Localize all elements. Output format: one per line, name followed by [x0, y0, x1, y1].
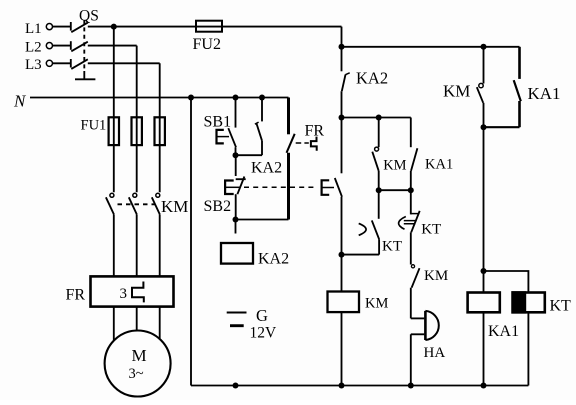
- switch QS pole 1: [71, 22, 88, 32]
- fuse FU1 a: [109, 117, 119, 145]
- svg-text:HA: HA: [424, 345, 446, 361]
- wire top bus to FU2 and right rail: [114, 26, 342, 28]
- thermal relay FR box: [66, 276, 174, 306]
- node L3 terminal: [25, 57, 53, 73]
- wire phase A down: [113, 27, 115, 193]
- svg-text:FR: FR: [305, 122, 325, 139]
- relay contact KA2 (NO, series in rail): [342, 68, 389, 117]
- svg-text:3~: 3~: [129, 366, 144, 382]
- node N / left rail junction: [188, 95, 194, 101]
- fuse FU1 b: [132, 117, 142, 145]
- svg-text:KM: KM: [443, 82, 470, 101]
- wire right rail top: [341, 27, 343, 72]
- node KA1 coil bus junction: [481, 383, 487, 389]
- svg-text:L3: L3: [25, 57, 42, 73]
- wire phase B down: [136, 46, 138, 193]
- motor M: [105, 331, 171, 397]
- node KA2 coil bus junction: [233, 383, 239, 389]
- node KA2 contact bottom junction: [339, 115, 345, 121]
- wire KT coil to bus: [527, 312, 529, 385]
- node top-right branch junction: [339, 44, 345, 50]
- contactor contact KM (NO, middle): [372, 118, 406, 191]
- wire rail to KM coil: [341, 255, 343, 292]
- wire KM/KA1 mid join: [379, 189, 411, 191]
- svg-text:KM: KM: [424, 268, 448, 284]
- svg-text:KM: KM: [365, 296, 388, 312]
- wire L2 row corner: [88, 45, 137, 47]
- wire phase C down: [159, 63, 161, 192]
- svg-text:SB2: SB2: [204, 198, 232, 215]
- svg-text:QS: QS: [79, 8, 99, 25]
- switch QS pole 3: [71, 59, 88, 69]
- svg-text:FU2: FU2: [193, 36, 221, 53]
- node SB1 top junction: [233, 95, 239, 101]
- svg-text:12V: 12V: [250, 324, 278, 341]
- wire KM coil to bus: [341, 312, 343, 385]
- wire SB2 bottom to FR rail: [236, 219, 289, 221]
- relay contact KA1 (NO, top right): [514, 47, 561, 127]
- node KM coil bus junction: [339, 383, 345, 389]
- wire phase B to FR: [136, 214, 138, 276]
- wire N bus: [30, 97, 289, 99]
- wire FR to motor c: [159, 307, 161, 339]
- pushbutton SB1 (NC): [204, 114, 237, 156]
- contactor contact KM (NO, top right): [443, 47, 484, 127]
- svg-text:FU1: FU1: [81, 117, 107, 133]
- wire left rail: [190, 98, 192, 386]
- wire KA1 coil to bus: [483, 312, 485, 385]
- svg-text:M: M: [132, 346, 147, 365]
- node L2 terminal: [25, 40, 53, 56]
- contactor KM main contact 2: [129, 193, 137, 214]
- svg-text:3: 3: [120, 286, 128, 302]
- svg-text:SB1: SB1: [204, 114, 232, 131]
- wire FR to motor a: [113, 307, 115, 340]
- wire KT bottom to rail: [342, 254, 380, 256]
- node KT rail junction: [339, 252, 345, 258]
- svg-text:KA2: KA2: [251, 159, 282, 176]
- SB2 linkage dashed to second pole: [244, 186, 316, 188]
- wire mid horizontal from KA2: [342, 117, 411, 119]
- contactor KM main contact 1: [106, 193, 114, 214]
- wire stub to KA2 coil: [235, 220, 237, 234]
- node HA bus junction: [408, 383, 414, 389]
- QS linkage dashed: [83, 20, 85, 71]
- wire KA1 to KT coil branch: [484, 271, 529, 293]
- svg-text:N: N: [13, 92, 27, 111]
- svg-text:KM: KM: [161, 197, 188, 216]
- node SB1 bottom junction: [233, 152, 239, 158]
- wire L3 to QS: [53, 62, 71, 64]
- svg-text:FR: FR: [66, 287, 86, 304]
- fuse FU2: [193, 21, 223, 53]
- wire SB1/KA2 bottom join: [236, 154, 263, 156]
- node KM top-right junction: [481, 44, 487, 50]
- timer contact KT (NO delayed close): [359, 190, 402, 254]
- thermal contact FR (NC): [287, 122, 325, 152]
- QS handle: [75, 71, 95, 79]
- node L1 terminal: [25, 21, 53, 37]
- wire rail mid section: [341, 118, 343, 174]
- contactor KM main contact 3: [152, 193, 160, 214]
- wire phase C to FR: [159, 214, 161, 276]
- wire KA1 coil rail: [483, 127, 485, 292]
- wire FR to motor b: [136, 307, 138, 331]
- svg-text:KM: KM: [383, 158, 406, 174]
- node KA2 parallel top junction: [259, 95, 265, 101]
- node KA1 mid bottom junction: [408, 187, 414, 193]
- relay contact KA2 (NO, parallel with SB1): [251, 98, 282, 177]
- node KM mid bottom junction: [376, 187, 382, 193]
- svg-text:KA1: KA1: [528, 84, 561, 103]
- svg-text:KA2: KA2: [258, 250, 289, 267]
- wire HA to bus: [410, 334, 412, 385]
- node KM/KA1 join junction: [481, 124, 487, 130]
- battery G 12V: [227, 306, 277, 341]
- wire L1 row to junction: [88, 26, 114, 28]
- svg-text:G: G: [256, 306, 268, 325]
- svg-text:L2: L2: [25, 40, 42, 56]
- relay contact KA1 (NO, middle): [411, 118, 453, 191]
- switch QS pole 2: [71, 41, 88, 51]
- wire L2 to QS: [53, 45, 71, 47]
- node KM mid branch junction: [376, 115, 382, 121]
- relay coil KA2: [221, 243, 289, 267]
- wire KM/KA1 parallel join: [484, 126, 520, 128]
- wire L1 to QS: [53, 26, 71, 28]
- svg-text:KT: KT: [382, 239, 402, 255]
- fuse FU1 c: [155, 117, 165, 145]
- svg-text:KA1: KA1: [488, 323, 519, 340]
- relay coil KA1: [468, 293, 520, 341]
- svg-text:KT: KT: [421, 222, 441, 238]
- wire FR rail lower (thick): [287, 153, 290, 220]
- node KA1 coil branch junction: [481, 268, 487, 274]
- timer contact KT (NC delayed open): [399, 190, 442, 264]
- svg-text:KT: KT: [550, 298, 572, 315]
- wire phase A to FR: [113, 214, 115, 276]
- wire top-right horizontal: [342, 46, 520, 48]
- wire SB1 branch top: [235, 98, 237, 128]
- pushbutton SB2 second pole (NO, in rail): [322, 178, 342, 255]
- node junction L1/FU2: [111, 24, 117, 30]
- svg-text:KA1: KA1: [425, 156, 453, 172]
- node SB2 bottom junction: [233, 217, 239, 223]
- contactor contact KM (NO, buzzer branch): [411, 265, 448, 319]
- pushbutton SB2 (NO): [204, 155, 246, 219]
- wire L3 row corner: [88, 62, 160, 64]
- contactor coil KM: [328, 292, 389, 313]
- buzzer HA: [411, 311, 446, 361]
- svg-text:KA2: KA2: [356, 68, 388, 87]
- timer coil KT (delay type): [511, 291, 571, 314]
- svg-text:L1: L1: [25, 21, 42, 37]
- KM main linkage dashed: [118, 203, 156, 205]
- wire bottom bus: [191, 385, 528, 387]
- wire FR rail upper (thick): [287, 98, 290, 135]
